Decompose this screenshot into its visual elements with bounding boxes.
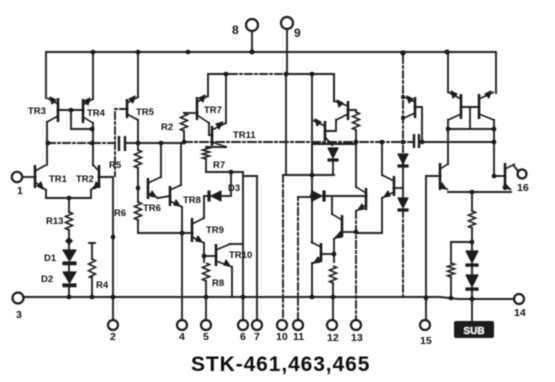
- wire bias line y233: [138, 232, 192, 234]
- terminal 13 circle: [351, 320, 361, 330]
- wire TR4 collector down to TR2 collector: [92, 123, 94, 165]
- terminal 8 circle: [246, 19, 258, 31]
- wire top supply bus: [46, 52, 496, 98]
- terminal 10 circle: [277, 320, 287, 330]
- resistor R13: [66, 212, 73, 230]
- arrow Tr3 emitter: [451, 91, 457, 98]
- svg-text:TR9: TR9: [206, 225, 224, 236]
- wire Tr1 base link: [415, 107, 422, 142]
- transistor TR7 bar: [196, 97, 199, 120]
- arrow TR7 emitter: [199, 95, 205, 102]
- arrow TR2 emitter: [94, 182, 100, 189]
- wire base node down to TR4 collector: [71, 110, 92, 129]
- wire Tr2 emitter down: [381, 198, 383, 233]
- arrow Tm5 emitter: [314, 257, 320, 263]
- wire terminal-16 lead: [514, 166, 518, 171]
- diode Dr4 stack: [466, 275, 478, 287]
- transistor Tm3 bar: [365, 188, 368, 210]
- diode D2 cathode bar: [63, 284, 76, 287]
- wire input terminal-1 to TR1 base: [23, 176, 35, 178]
- transistor TR8 bar: [169, 186, 172, 206]
- diode Dm1 channel2: [328, 148, 338, 158]
- wire second rail dash-dot part: [230, 73, 286, 75]
- wire Tm4 collector tap: [331, 196, 333, 214]
- svg-text:R6: R6: [114, 208, 126, 219]
- diode Dm2 channel2: [312, 191, 322, 201]
- svg-text:STK-461,463,465: STK-461,463,465: [191, 353, 370, 376]
- wire Tm1 base to mirror resistor: [348, 110, 356, 112]
- wire Tr3/Tr4 base link: [461, 106, 479, 108]
- wire diode stack top lead: [471, 242, 473, 251]
- resistor R mirror channel2: [353, 112, 360, 130]
- transistor Tm1 legs: [334, 101, 348, 120]
- wire TR2 base to feedback column: [99, 177, 113, 320]
- svg-text:TR3: TR3: [28, 106, 46, 117]
- wire Rm bottom to terminal 12: [332, 283, 334, 320]
- wire Tm3 collector bracket: [312, 144, 356, 187]
- wire Tr4 collector column: [493, 120, 495, 176]
- wire Dm2 cathode line to Tm3 base: [324, 195, 366, 197]
- wire bias dash-dot x403 lower: [402, 210, 404, 296]
- wire capacitor C2 right lead: [421, 141, 494, 143]
- svg-text:D2: D2: [41, 274, 53, 285]
- wire TR6 collector up: [160, 143, 162, 177]
- wire second rail solid left part: [208, 74, 230, 96]
- svg-text:D1: D1: [44, 253, 57, 264]
- PARTS_START: [66, 112, 476, 283]
- transistor TR9 legs: [192, 218, 204, 243]
- terminal 5 circle: [201, 320, 211, 330]
- svg-text:R8: R8: [212, 278, 224, 289]
- wire TR8 emitter to terminal 4: [181, 207, 183, 320]
- wire TR3 collector down to TR1 collector: [46, 122, 48, 165]
- transistor TR10 bar: [215, 244, 218, 266]
- wire TR10 emitter down: [231, 267, 233, 297]
- wire TR9 emitter down: [203, 243, 205, 262]
- wire terminal-8 stem: [251, 32, 253, 52]
- wire diode stack bottom lead: [471, 289, 473, 299]
- wire Tr2 base tap: [394, 187, 403, 189]
- arrow TR11 emitter: [216, 122, 223, 129]
- transistor Tm1 bar: [347, 101, 350, 120]
- node blob above D1: [65, 237, 73, 245]
- TEXT_START: [28, 105, 256, 291]
- terminal 2 circle: [108, 320, 118, 330]
- diode Dr3 stack: [466, 251, 478, 263]
- transistor TR1 bar: [34, 165, 37, 188]
- wire R6 bottom: [137, 220, 139, 233]
- svg-text:TR1: TR1: [49, 174, 68, 185]
- svg-text:TR7: TR7: [204, 105, 222, 116]
- wire bottom rail: [24, 297, 514, 299]
- wire R7 bottom: [205, 159, 207, 172]
- svg-text:11: 11: [293, 331, 304, 343]
- transistor Tm3 legs: [356, 187, 366, 211]
- arrow Tm3 emitter: [358, 204, 364, 210]
- wire lower pair join line y191: [448, 191, 511, 193]
- svg-text:R7: R7: [213, 160, 225, 171]
- transistor Tr2 bar: [393, 176, 396, 196]
- wire y233 link ch2: [357, 232, 382, 234]
- svg-text:TR8: TR8: [183, 195, 201, 206]
- wire SUB drop: [471, 299, 473, 322]
- svg-text:4: 4: [179, 331, 185, 343]
- transistor TR2 legs: [91, 165, 99, 190]
- wire bias dash-dot x403 upper: [402, 56, 404, 152]
- wire D3 cathode link: [204, 195, 210, 197]
- svg-text:6: 6: [240, 331, 246, 343]
- terminal 3 circle: [13, 293, 24, 304]
- diode D1 cathode bar: [63, 262, 76, 265]
- svg-text:R13: R13: [46, 216, 63, 227]
- arrow Tm4 emitter: [336, 232, 342, 238]
- terminal 16 circle: [518, 170, 527, 179]
- diode Dr2 bias: [398, 198, 408, 208]
- wire diode stack middle lead: [471, 265, 473, 275]
- transistor Tm4 bar: [341, 215, 344, 237]
- wire node line y172: [206, 172, 243, 320]
- transistor TR7 legs: [197, 96, 209, 123]
- svg-text:8: 8: [232, 23, 239, 37]
- resistor R2: [181, 113, 188, 131]
- arrow Tr6 emitter: [503, 183, 509, 189]
- svg-text:10: 10: [276, 331, 288, 343]
- wire terminal-9 stem: [286, 30, 288, 74]
- wire TR10 collector link: [230, 243, 243, 245]
- wire D3 riser: [230, 172, 232, 196]
- svg-text:TR5: TR5: [136, 107, 155, 118]
- terminal 1 circle: [12, 172, 22, 182]
- wire D1 to D2: [68, 264, 70, 272]
- transistor TR8 legs: [170, 185, 182, 207]
- resistor R4: [89, 259, 96, 277]
- junction dots: [91, 50, 96, 55]
- wire Tm1 emitter to rail corner: [333, 74, 335, 101]
- transistor Tm5 legs: [311, 242, 321, 264]
- terminal 7 circle: [252, 320, 262, 330]
- wire Tr6 base tap: [494, 175, 505, 177]
- transistor Tr1 bar: [414, 97, 417, 118]
- wire Tm1 collector to Tm2 base: [325, 120, 336, 131]
- terminal 6 circle: [238, 320, 248, 330]
- wire bias x403 diode section: [402, 164, 404, 198]
- diode D3: [211, 191, 221, 201]
- wire Dm1 bottom corner into node line: [332, 160, 334, 175]
- transistor Tr2 legs: [382, 175, 394, 198]
- wire ch2 left riser x286: [285, 74, 287, 175]
- transistor TR11 bar: [211, 126, 214, 146]
- svg-text:1: 1: [17, 185, 23, 197]
- diode D2: [63, 272, 76, 283]
- wire Tm3 emitter to terminal 13: [355, 211, 357, 320]
- transistor Tr6 legs: [505, 164, 515, 190]
- arrow TR8 emitter: [174, 200, 180, 206]
- diode Dr4 cathode bar: [466, 288, 478, 290]
- svg-text:2: 2: [110, 331, 116, 343]
- wire Tm4 emitter down: [333, 239, 335, 262]
- transistor Tr4 bar: [478, 94, 481, 119]
- diode Dm1 cathode bar: [328, 159, 338, 161]
- svg-text:TR2: TR2: [76, 174, 94, 185]
- diode Dr1 bias: [398, 154, 408, 164]
- resistor Rr1 right block: [469, 211, 476, 228]
- resistor R6: [135, 202, 142, 220]
- wire dash-dot node line left: [48, 142, 118, 144]
- diode Dr3 cathode bar: [466, 264, 478, 266]
- transistor TR9 bar: [191, 218, 194, 242]
- wire mirror resistor bottom: [355, 130, 357, 142]
- svg-text:3: 3: [16, 309, 22, 321]
- transistor Tr4 legs: [479, 92, 494, 120]
- wire terminal-11 riser top link: [298, 196, 312, 198]
- svg-text:TR11: TR11: [233, 130, 256, 141]
- svg-text:R4: R4: [96, 280, 109, 291]
- SUB tab: [454, 321, 494, 338]
- diode D1: [63, 250, 76, 261]
- wire second rail right part: [286, 74, 334, 101]
- wire ch2 node line y175: [284, 174, 334, 176]
- transistor TR5 bar: [126, 99, 129, 118]
- transistor Tr5 legs: [440, 164, 448, 190]
- wire TR9 collector up to D3: [203, 196, 205, 218]
- transistor Tr1 legs: [404, 97, 415, 118]
- wire D2 to bottom rail: [68, 287, 70, 297]
- arrow Tm2 emitter: [315, 119, 321, 126]
- terminal 15 circle: [420, 320, 430, 330]
- terminal 12 circle: [327, 320, 337, 330]
- wire branch to Rr2: [451, 241, 472, 243]
- terminal 9 circle: [281, 17, 293, 29]
- svg-text:R5: R5: [109, 160, 122, 171]
- diode Dr1 cathode bar: [398, 165, 408, 167]
- wire Rr2 top lead: [450, 242, 452, 263]
- capacitor C2: [414, 134, 419, 148]
- transistor Tm2 bar: [324, 121, 327, 141]
- transistor Tr6 bar: [504, 163, 507, 190]
- wire tail node down to R13: [68, 198, 70, 212]
- resistor R7: [203, 147, 210, 159]
- wire base link drop: [469, 107, 471, 129]
- wire Rr2 bottom lead: [450, 277, 452, 298]
- transistor Tm4 legs: [332, 214, 342, 239]
- wire Tr2 collector up: [381, 142, 383, 175]
- diode Dr2 cathode bar: [398, 209, 408, 211]
- svg-text:TR4: TR4: [87, 108, 106, 119]
- transistor TR5 legs: [127, 97, 138, 120]
- wire TR5 collector down: [137, 120, 139, 150]
- resistor R5: [135, 150, 142, 168]
- transistor TR3 legs: [47, 98, 58, 122]
- wire terminal-11 riser: [297, 197, 299, 320]
- arrow Tr4 emitter: [485, 91, 491, 98]
- resistor R8: [203, 263, 210, 281]
- wire TR3/TR4 base link: [58, 109, 83, 111]
- svg-text:5: 5: [203, 331, 209, 343]
- wire R4 top stub: [89, 243, 95, 259]
- wire Tr3 emitter to bus: [447, 52, 449, 92]
- wire terminal-10 dash-dot drop: [282, 175, 284, 320]
- wire Tm5 base tap: [321, 253, 334, 255]
- wire Tm5 emitter down: [311, 263, 313, 297]
- svg-text:7: 7: [254, 331, 260, 343]
- wire ch2 center riser x312: [311, 74, 313, 242]
- svg-text:13: 13: [351, 332, 363, 344]
- transistor TR1 legs: [35, 165, 46, 190]
- wire TR8 collector up: [180, 143, 182, 185]
- transistor Tm2 legs: [312, 120, 333, 146]
- wire R13 to D1: [68, 230, 70, 250]
- arrow Tr1 emitter: [407, 96, 413, 103]
- transistor TR6 bar: [147, 178, 150, 199]
- arrow Tr2 emitter: [384, 191, 390, 197]
- svg-text:SUB: SUB: [463, 326, 484, 337]
- wire TR6 emitter to TR8 base: [158, 196, 170, 198]
- svg-text:TR6: TR6: [143, 203, 161, 214]
- transistor Tr3 bar: [460, 94, 463, 119]
- terminal 14 circle: [514, 294, 524, 304]
- arrow TR3 emitter: [50, 97, 56, 104]
- wire R2 top to TR7 base: [184, 112, 197, 114]
- wire TR4 emitter to bus: [92, 52, 94, 99]
- transistor TR3 bar: [57, 98, 60, 122]
- svg-text:R2: R2: [161, 122, 173, 133]
- svg-text:15: 15: [420, 335, 432, 347]
- wire TR5 emitter to bus: [137, 52, 139, 97]
- arrow Tm1 emitter: [337, 100, 343, 107]
- wire TR7 collector to TR11 base: [209, 123, 212, 135]
- transistor TR4 bar: [82, 99, 85, 123]
- wire terminal-15 riser to Tr5 base: [426, 176, 440, 320]
- wire long dash-dot bootstrap line: [184, 141, 413, 143]
- wire join node down to Rr1: [471, 192, 473, 211]
- wire capacitor C1 right lead: [126, 142, 184, 144]
- arrow TR1 emitter: [37, 182, 43, 189]
- terminal 11 circle: [293, 320, 303, 330]
- wire terminal-7 riser: [245, 176, 257, 320]
- transistor TR6 legs: [148, 177, 161, 198]
- diode D3 cathode bar: [208, 191, 210, 201]
- transistor TR4 legs: [83, 99, 93, 123]
- svg-text:TR10: TR10: [229, 250, 252, 261]
- wire pair join line y129: [448, 128, 494, 130]
- svg-text:9: 9: [294, 26, 301, 40]
- capacitor C1: [119, 136, 125, 151]
- wire R4 bottom: [91, 277, 93, 297]
- svg-text:D3: D3: [228, 183, 240, 194]
- terminal 4 circle: [177, 320, 187, 330]
- wire R8 bottom to terminal 5: [205, 281, 207, 320]
- wire Tm4 base tap: [342, 231, 356, 233]
- wire TR10 base tap: [204, 255, 216, 257]
- resistor Rr2 right block: [448, 263, 455, 277]
- svg-text:12: 12: [327, 332, 339, 344]
- resistor Rm channel2: [330, 266, 337, 283]
- arrow TR9 emitter: [196, 236, 202, 242]
- transistor Tr5 bar: [439, 163, 442, 190]
- wire Rr1 bottom: [471, 228, 473, 242]
- arrow TR5 emitter: [129, 96, 135, 103]
- svg-text:16: 16: [517, 182, 529, 194]
- wire R5 bottom to TR6 base node: [137, 168, 139, 202]
- transistor Tr3 legs: [448, 92, 461, 120]
- wire R2 bottom: [183, 131, 185, 142]
- arrow TR4 emitter: [84, 98, 90, 105]
- transistor TR2 bar: [98, 165, 101, 188]
- transistor TR10 legs: [216, 244, 232, 267]
- wire D3 anode to riser: [221, 195, 230, 197]
- wire TR11 collector to R7: [206, 146, 226, 148]
- arrow TR10 emitter: [224, 260, 230, 266]
- wire TR5 base dash-dot: [115, 109, 127, 176]
- transistor TR11 legs: [212, 123, 226, 147]
- arrow Tr5 emitter: [440, 183, 446, 189]
- diode Dm2 cathode bar: [323, 191, 325, 201]
- transistor Tm5 bar: [320, 243, 323, 262]
- wire Tr3 collector down: [447, 120, 449, 164]
- arrow TR6 emitter: [150, 191, 156, 197]
- wire TR1 TR2 emitter join: [46, 190, 91, 198]
- wire TR11 emitter to rail: [225, 74, 227, 123]
- svg-text:14: 14: [514, 307, 526, 319]
